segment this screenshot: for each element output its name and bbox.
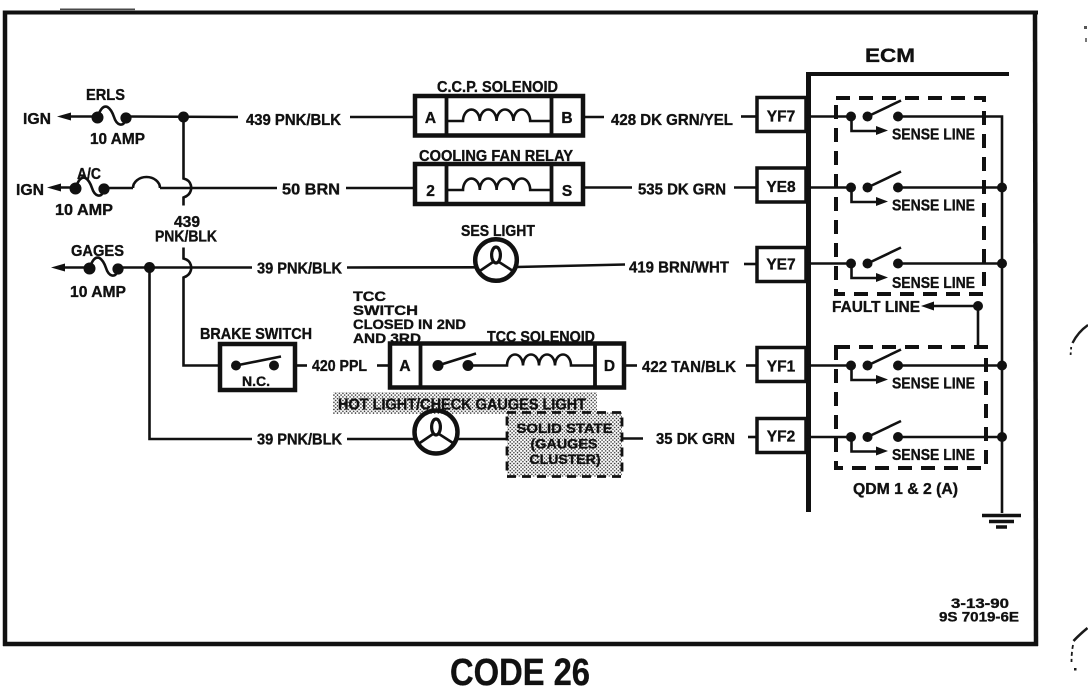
- wire 419 BRN/WHT: [517, 260, 758, 277]
- svg-text:D: D: [604, 358, 615, 375]
- svg-text:YF2: YF2: [767, 429, 795, 446]
- wire 35 DK GRN: [622, 431, 757, 448]
- node IGN row1: [23, 111, 98, 128]
- svg-text:SENSE LINE: SENSE LINE: [892, 376, 975, 393]
- svg-text:439 PNK/BLK: 439 PNK/BLK: [246, 112, 342, 129]
- connector pin YF2: [757, 419, 806, 453]
- svg-text:ERLS: ERLS: [86, 87, 125, 104]
- QDM switch row YF7: [806, 101, 975, 144]
- svg-text:B: B: [561, 110, 572, 127]
- ground: [982, 516, 1021, 528]
- wire 439 PNK/BLK row1: [126, 112, 416, 130]
- QDM switch row YE8: [806, 172, 975, 215]
- svg-text:CODE 26: CODE 26: [450, 652, 590, 688]
- fuse ERLS 10 AMP: [86, 87, 145, 148]
- relay COOLING FAN RELAY: [415, 148, 583, 204]
- svg-text:ECM: ECM: [865, 46, 915, 67]
- label HOT LIGHT/CHECK GAUGES LIGHT: [333, 392, 597, 414]
- QDM switch row YF1: [806, 350, 975, 393]
- svg-text:(GAUGES: (GAUGES: [531, 436, 598, 452]
- svg-text:A: A: [399, 358, 410, 375]
- solenoid C.C.P. SOLENOID: [415, 79, 583, 136]
- dashed box QDM lower: [836, 347, 986, 468]
- lamp SES LIGHT: [461, 223, 535, 281]
- connector pin YF1: [757, 348, 806, 382]
- svg-text:A: A: [425, 110, 436, 127]
- solenoid TCC SOLENOID with TCC switch: [390, 329, 624, 388]
- svg-text:SOLID STATE: SOLID STATE: [517, 420, 613, 436]
- dashed box QDM upper: [836, 98, 984, 294]
- svg-text:SENSE LINE: SENSE LINE: [892, 275, 975, 292]
- fuse A/C 10 AMP: [55, 166, 113, 219]
- svg-text:10 AMP: 10 AMP: [70, 284, 126, 301]
- svg-text:SENSE LINE: SENSE LINE: [892, 127, 975, 144]
- svg-text:10 AMP: 10 AMP: [90, 131, 145, 148]
- svg-text:39 PNK/BLK: 39 PNK/BLK: [257, 261, 343, 278]
- svg-text:IGN: IGN: [23, 111, 51, 128]
- wire 535 DK GRN: [583, 182, 757, 199]
- svg-text:YF1: YF1: [767, 359, 796, 376]
- bus sense line to ground: [898, 117, 1007, 514]
- svg-text:419 BRN/WHT: 419 BRN/WHT: [629, 260, 730, 277]
- svg-text:S: S: [562, 183, 572, 200]
- svg-text:SENSE LINE: SENSE LINE: [892, 198, 975, 215]
- svg-text:9S 7019-6E: 9S 7019-6E: [939, 609, 1019, 625]
- svg-text:YE7: YE7: [766, 257, 795, 274]
- svg-text:N.C.: N.C.: [242, 373, 270, 389]
- connector pin YE7: [757, 248, 806, 282]
- svg-text:CLUSTER): CLUSTER): [530, 451, 601, 467]
- label TCC SWITCH CLOSED IN 2ND AND 3RD: [353, 288, 466, 346]
- QDM switch row YF2: [806, 421, 975, 464]
- ECM housing: [806, 46, 1009, 512]
- module SOLID STATE (GAUGES CLUSTER): [507, 413, 622, 477]
- net FAULT LINE: [832, 299, 983, 346]
- node IGN row2: [16, 182, 76, 199]
- svg-text:YF7: YF7: [767, 109, 795, 126]
- svg-text:SENSE LINE: SENSE LINE: [892, 447, 975, 464]
- svg-text:YE8: YE8: [766, 179, 796, 196]
- svg-text:428 DK GRN/YEL: 428 DK GRN/YEL: [611, 112, 733, 129]
- wire 428 DK GRN/YEL: [583, 112, 757, 129]
- svg-text:535 DK GRN: 535 DK GRN: [638, 182, 726, 199]
- wire 420 PPL: [295, 358, 390, 375]
- svg-text:420 PPL: 420 PPL: [312, 358, 367, 375]
- svg-text:422 TAN/BLK: 422 TAN/BLK: [642, 359, 737, 376]
- wire 39 PNK/BLK row5: [150, 268, 416, 449]
- connector pin YF7: [757, 98, 806, 132]
- svg-text:10 AMP: 10 AMP: [55, 202, 113, 219]
- label date and drawing number: [939, 595, 1019, 625]
- svg-text:C.C.P. SOLENOID: C.C.P. SOLENOID: [437, 79, 558, 96]
- wire 422 TAN/BLK: [624, 359, 757, 376]
- svg-text:2: 2: [426, 183, 435, 200]
- lamp HOT/CHECK GAUGES: [415, 411, 508, 454]
- svg-text:IGN: IGN: [16, 182, 44, 199]
- svg-text:BRAKE SWITCH: BRAKE SWITCH: [200, 326, 312, 343]
- wire 50 BRN with hop bump: [104, 177, 416, 198]
- QDM switch row YE7: [806, 248, 975, 293]
- switch BRAKE SWITCH N.C.: [200, 326, 312, 390]
- svg-text:FAULT LINE: FAULT LINE: [832, 299, 920, 316]
- svg-text:HOT LIGHT/CHECK GAUGES LIGHT: HOT LIGHT/CHECK GAUGES LIGHT: [338, 397, 586, 414]
- svg-text:35 DK GRN: 35 DK GRN: [656, 431, 735, 448]
- svg-text:PNK/BLK: PNK/BLK: [155, 229, 218, 246]
- svg-text:QDM 1 & 2 (A): QDM 1 & 2 (A): [853, 481, 958, 498]
- wire 39 PNK/BLK row3: [117, 261, 476, 278]
- fuse GAGES 10 AMP: [51, 243, 126, 301]
- svg-text:50 BRN: 50 BRN: [282, 182, 340, 199]
- wire 439 PNK/BLK vertical with hops: [155, 117, 220, 366]
- svg-text:39 PNK/BLK: 39 PNK/BLK: [257, 432, 343, 449]
- connector pin YE8: [757, 168, 806, 202]
